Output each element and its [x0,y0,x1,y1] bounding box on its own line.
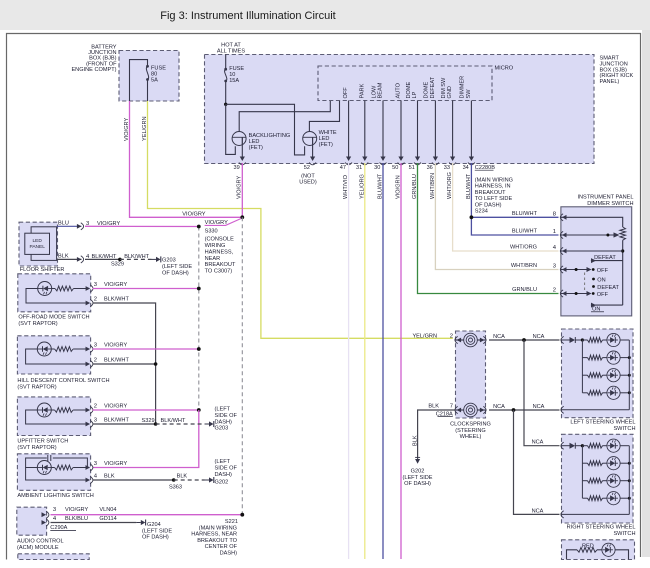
svg-text:BREAKOUT: BREAKOUT [475,190,506,196]
svg-text:50: 50 [392,165,398,171]
smart junction box (SJB) [205,43,634,164]
micro pin AUTO [396,82,404,161]
svg-text:OF DASH): OF DASH) [475,202,502,208]
audio control (ACM) module [17,507,64,551]
wire VIO/GRY splice down to ambient [93,410,199,468]
svg-text:OFF: OFF [343,87,349,99]
hill descent control switch [17,336,129,391]
svg-text:39: 39 [233,165,239,171]
micro pin DIMMER SW [460,76,474,161]
label clockspring pin 2 [412,333,453,339]
svg-text:(NOT: (NOT [301,173,315,179]
svg-text:HARNESS, IN: HARNESS, IN [475,184,511,190]
svg-text:(STEERING: (STEERING [455,428,485,434]
svg-text:DASH): DASH) [215,472,233,478]
svg-text:HOT AT: HOT AT [221,43,241,49]
wire VIO/GRY hill descent to splice [93,347,201,351]
svg-text:(LEFT: (LEFT [215,407,231,413]
micro pin PARK [359,83,367,161]
connector C2280B pin 31 [356,163,368,171]
wire WHT/BRN pin36 to dimmer pin3 [435,163,558,270]
svg-text:WHEEL): WHEEL) [460,434,482,440]
svg-text:30: 30 [374,165,380,171]
wire YEL/GRN from BJB fuse to clockspring [148,101,453,338]
svg-text:NCA: NCA [533,404,545,410]
svg-text:S330: S330 [205,228,218,234]
svg-text:LED: LED [33,238,43,244]
svg-text:DIMMER: DIMMER [460,76,466,99]
svg-text:OF DASH): OF DASH) [404,481,431,487]
label clockspring pin 7 [428,403,453,409]
dimmer pin 8 BLU/WHT [512,211,567,221]
node S234 splice [470,215,474,219]
micro pin OFF [343,87,351,161]
wire BJB internal feed [130,60,148,101]
svg-text:GD114: GD114 [99,516,116,522]
svg-text:FLOOR SHIFTER: FLOOR SHIFTER [20,267,65,273]
svg-text:S234: S234 [475,209,488,215]
floor shifter [19,222,64,273]
svg-text:BLK/WHT: BLK/WHT [104,418,129,424]
svg-text:DOME: DOME [424,81,430,98]
svg-text:2: 2 [94,297,97,303]
ground G204 [136,520,172,541]
svg-text:VIO/GRY: VIO/GRY [104,343,127,349]
label BLU/WHT vertical [466,173,472,199]
svg-text:VIO/GRY: VIO/GRY [104,461,127,467]
pin 39 drain backlighting [233,137,245,171]
svg-text:GRN/BLU: GRN/BLU [512,287,537,293]
dimmer pin 2 GRN/BLU [512,287,566,297]
transistor backlighting LED FET [232,132,290,152]
svg-text:HILL DESCENT CONTROL SWITCH: HILL DESCENT CONTROL SWITCH [17,378,109,384]
audio pin 3 VIO/GRY VLN04 [53,507,117,513]
wire BLK/WHT hill descent join [93,362,158,366]
svg-text:SIDE OF: SIDE OF [215,466,238,472]
connector C2280B pin 33 [444,163,456,171]
svg-text:DOME: DOME [406,81,412,98]
svg-text:BREAKOUT: BREAKOUT [205,262,236,268]
svg-text:33: 33 [444,165,450,171]
connector C2280B pin 34 [463,163,475,171]
svg-text:2: 2 [553,288,556,294]
node NCA junction lower [512,408,516,412]
svg-text:RED: RED [582,543,594,549]
svg-text:Fig 3: Instrument Illumination: Fig 3: Instrument Illumination Circuit [160,10,335,22]
svg-text:15A: 15A [229,78,239,84]
svg-text:BLK: BLK [412,435,418,446]
right gray margin [642,30,650,557]
wire VIO/GRY off-road to splice [93,287,201,291]
svg-text:PANEL: PANEL [30,244,46,250]
node S329 [111,258,124,268]
svg-text:(LEFT SIDE: (LEFT SIDE [402,475,432,481]
svg-text:BLK: BLK [58,253,69,259]
clockspring (steering wheel) [450,331,491,440]
svg-text:7: 7 [450,403,453,409]
wire gate backlighting FET to MICRO [239,101,330,132]
svg-text:52: 52 [304,165,310,171]
svg-text:VIO/GRY: VIO/GRY [65,507,88,513]
svg-text:AUTO: AUTO [396,82,402,98]
wire NCA clockspring upper to left switch [489,334,560,340]
ground G203 floor shifter [152,256,193,276]
svg-text:(MAIN WIRING: (MAIN WIRING [475,178,513,184]
svg-text:PANEL): PANEL) [600,79,620,85]
svg-text:(LEFT: (LEFT [215,459,231,465]
svg-text:WHT/ORG: WHT/ORG [510,245,537,251]
node S221 splice [240,513,244,517]
svg-text:2: 2 [94,358,97,364]
svg-text:NCA: NCA [493,334,505,340]
instrument panel dimmer switch [561,195,634,316]
right steering wheel switch [561,434,636,537]
svg-text:(LEFT SIDE: (LEFT SIDE [162,264,192,270]
svg-text:S329: S329 [111,262,124,268]
wire BLK dashed to G202 [174,479,205,481]
svg-text:OFF: OFF [597,292,609,298]
dimmer pin3 wiper OFF [561,267,609,274]
svg-text:AUDIO CONTROL: AUDIO CONTROL [17,539,64,545]
svg-text:47: 47 [340,165,346,171]
connector C2280B pin 51 [409,163,421,171]
fuse 80 5A [146,65,166,84]
svg-text:DASH): DASH) [220,550,238,556]
svg-text:SWITCH: SWITCH [613,531,635,537]
micro pin DOME LP [406,81,420,161]
ground G202 steering [402,457,432,487]
dimmer pin2 wiper OFF [561,291,609,298]
svg-text:TO C3007): TO C3007) [205,269,233,275]
wire BLK/WHT upfitter to S329 [93,418,156,424]
svg-text:YEL/GRN: YEL/GRN [412,333,437,339]
micro pin LOW BEAM [371,82,385,161]
header title bar [0,0,650,30]
label VIO/GRY on feed wire [182,212,205,218]
svg-text:INSTRUMENT PANEL: INSTRUMENT PANEL [577,195,633,201]
wire VIO/GRY from BJB [130,101,242,217]
wire BLK clockspring to G202 [412,410,455,459]
dimmer pin 1 BLU/WHT [512,229,567,239]
dimmer wiper linkage dashed [584,273,586,292]
svg-text:VIO/GRY: VIO/GRY [182,212,205,218]
wire BLK/WHT to S329 [85,258,120,260]
ambient lighting switch [17,454,127,499]
svg-text:OF DASH): OF DASH) [162,271,189,277]
wire gate white FET to MICRO [309,101,339,132]
svg-text:(FET): (FET) [249,145,263,151]
svg-text:(MAIN WIRING: (MAIN WIRING [199,526,237,532]
wire BLU/WHT pin34 to dimmer [471,163,558,235]
svg-text:(ACM) MODULE: (ACM) MODULE [17,545,59,551]
svg-text:VIO/GRY: VIO/GRY [124,118,130,141]
svg-text:PARK: PARK [359,83,365,98]
wire BLK/WHT off-road down [93,303,156,424]
svg-text:51: 51 [409,165,415,171]
svg-text:VIO/GRY: VIO/GRY [104,404,127,410]
svg-text:1: 1 [553,229,556,235]
svg-text:G204: G204 [147,522,161,528]
svg-text:31: 31 [356,165,362,171]
svg-text:BLU/WHT: BLU/WHT [512,211,538,217]
svg-text:36: 36 [427,165,433,171]
connector C2280B pin 47 [340,163,352,171]
node fuse output [224,81,227,106]
svg-text:BEAM: BEAM [378,82,384,98]
ground G203 upfitter [205,407,238,432]
svg-text:DEFEAT: DEFEAT [430,76,436,98]
svg-text:MICRO: MICRO [495,66,514,72]
wire VIO/GRY audio to S221 [51,514,243,516]
floor shifter pin 3 BLU wire [57,220,121,230]
node S330 splice [240,215,244,219]
svg-text:BLU: BLU [58,220,69,226]
left steering wheel switch [561,329,636,432]
svg-text:S221: S221 [225,519,238,525]
connector C2280B pin 50 [392,163,404,171]
svg-text:BLK/BLU: BLK/BLU [65,516,88,522]
wire NCA clockspring lower to left switch [489,404,560,410]
audio pin 4 BLK/BLU GD114 [50,516,116,531]
label VIO/GRY vertical under BJB [124,118,130,141]
label WHT/ORG vertical [447,172,453,199]
wire GRN/BLU pin51 to dimmer pin2 [418,163,559,294]
svg-text:2: 2 [450,333,453,339]
svg-text:OFF-ROAD MODE SWITCH: OFF-ROAD MODE SWITCH [18,315,89,321]
label GRN/BLU vertical [412,174,418,199]
node NCA junction upper [522,338,526,342]
svg-text:(SVT RAPTOR): (SVT RAPTOR) [17,445,56,451]
wire splice bus dashed S330 right [241,217,243,514]
svg-text:G202: G202 [215,479,229,485]
svg-text:(LEFT SIDE: (LEFT SIDE [142,528,172,534]
svg-text:BLK: BLK [104,474,115,480]
svg-text:5A: 5A [151,78,158,84]
svg-text:34: 34 [463,165,469,171]
upfitter switch [17,397,129,451]
label VIO/GRY vertical [237,176,243,199]
fuse 10 15A [224,55,244,85]
connector label C2280B [475,165,495,171]
micro pin DOME DEFEAT [424,76,438,161]
svg-text:BLK/WHT: BLK/WHT [104,297,129,303]
wire pin39 VIO/GRY down to S330 [241,163,243,217]
node S363 [172,478,176,482]
transistor white LED FET [303,130,337,148]
svg-text:LOW: LOW [371,85,377,98]
svg-text:HARNESS, NEAR: HARNESS, NEAR [191,532,237,538]
svg-text:BLK: BLK [177,474,188,480]
svg-text:DIM SW: DIM SW [441,77,447,99]
svg-text:VLN04: VLN04 [99,507,116,513]
svg-text:BLU/WHT: BLU/WHT [512,229,538,235]
wire BLK/WHT dashed to G203 second [156,418,205,424]
pin 52 drain white LED [299,137,317,185]
svg-text:TO LEFT SIDE: TO LEFT SIDE [475,196,513,202]
svg-text:S329: S329 [142,418,155,424]
label YEL/GRN vertical under BJB [142,116,148,141]
svg-text:SWITCH: SWITCH [613,426,635,432]
svg-text:ALL TIMES: ALL TIMES [217,49,246,55]
connector C218A [436,411,453,417]
svg-text:BREAKOUT TO: BREAKOUT TO [197,538,237,544]
svg-text:SIDE OF: SIDE OF [215,413,238,419]
svg-text:LEFT STEERING WHEEL: LEFT STEERING WHEEL [570,420,635,426]
coil L1 clockspring upper [455,333,486,347]
label S330 with leader [205,219,241,275]
svg-text:ENGINE COMPT): ENGINE COMPT) [71,67,116,73]
svg-text:GND: GND [447,86,453,98]
label S234 harness note [475,178,513,215]
wire VIO/GRY floor shifter to splice [85,225,201,229]
dimmer contact DEFEAT lower [592,285,619,291]
svg-text:NCA: NCA [532,508,544,514]
svg-text:OFF: OFF [597,268,609,274]
svg-text:NCA: NCA [533,334,545,340]
connector C2280B pin 30 [374,163,386,171]
svg-text:OF DASH): OF DASH) [142,535,169,541]
svg-text:BLK: BLK [428,403,439,409]
svg-text:NCA: NCA [493,404,505,410]
svg-text:BLK/WHT: BLK/WHT [124,254,149,260]
svg-text:AMBIENT LIGHTING SWITCH: AMBIENT LIGHTING SWITCH [17,493,93,499]
wire splice bus dashed S330 left [198,227,200,411]
svg-text:BLK/WHT: BLK/WHT [161,418,186,424]
svg-text:(SVT RAPTOR): (SVT RAPTOR) [18,321,57,327]
dimmer contact ON [592,277,606,283]
dimmer pin 4 WHT/ORG [510,245,567,255]
floor shifter pin 4 BLK wire [57,253,117,263]
svg-text:(CONSOLE: (CONSOLE [205,237,234,243]
svg-text:S363: S363 [169,485,182,491]
svg-text:G202: G202 [411,469,425,475]
label S221 harness note [191,519,238,556]
node S329 second [154,422,158,426]
svg-text:WHT/BRN: WHT/BRN [511,263,537,269]
svg-text:YEL/GRN: YEL/GRN [142,116,148,141]
dimmer DEFEAT contact upper [591,255,623,263]
micro pin DIM SW GND [441,77,455,161]
wire NCA to right switch top [524,340,560,446]
wire supply to FETs [226,104,305,155]
svg-text:(SVT RAPTOR): (SVT RAPTOR) [17,384,56,390]
label WHT/VIO vertical [343,174,349,199]
wire BLK/WHT dashed to G203 [120,254,152,260]
svg-text:NCA: NCA [532,440,544,446]
dimmer pin 3 WHT/BRN [511,263,567,273]
battery junction box (BJB) [71,45,179,102]
dimmer internal rheostat circuit [561,217,626,305]
svg-text:CLOCKSPRING: CLOCKSPRING [450,422,491,428]
svg-text:DASH): DASH) [215,419,233,425]
svg-text:DIMMER SWITCH: DIMMER SWITCH [587,201,633,207]
off-road mode switch [18,274,130,327]
label YEL/ORG vertical [359,174,365,199]
svg-text:RIGHT STEERING WHEEL: RIGHT STEERING WHEEL [567,525,636,531]
bottom-left box (cut off) [18,554,89,560]
connector C2280B pin 36 [427,163,439,171]
coil L2 clockspring lower [455,403,486,417]
svg-text:SW: SW [466,89,472,99]
label VIO/GRN vertical [396,175,402,199]
wire BLU/WHT pin30 [382,163,384,559]
wire YEL/ORG pin31 [364,163,366,559]
wire BLK/BLU audio to G204 [51,522,137,524]
micro controller box [318,66,514,101]
wire WHT/VIO pin47 [348,163,350,559]
dimmer ON contact bottom [591,303,623,313]
svg-text:2: 2 [94,404,97,410]
svg-text:UPFITTER SWITCH: UPFITTER SWITCH [17,438,68,444]
svg-text:WIRING: WIRING [205,243,226,249]
svg-text:(FET): (FET) [319,142,333,148]
svg-text:USED): USED) [299,180,317,186]
ground G202 ambient [205,459,238,485]
label BLU/WHT vertical [378,173,384,199]
svg-text:LP: LP [412,91,418,98]
bottom switch box (cut off) [562,540,635,560]
svg-text:G203: G203 [162,258,176,264]
svg-text:DEFEAT: DEFEAT [597,285,619,291]
svg-text:HARNESS,: HARNESS, [205,249,234,255]
wire BLK ambient to S363 [93,474,188,491]
svg-text:BLK/WHT: BLK/WHT [104,358,129,364]
svg-text:CENTER OF: CENTER OF [205,544,238,550]
svg-text:ON: ON [597,277,605,283]
svg-text:NEAR: NEAR [205,256,221,262]
label WHT/BRN vertical [430,173,436,199]
wire NCA to right switch bottom [514,410,560,514]
svg-text:VIO/GRY: VIO/GRY [104,282,127,288]
wire VIO/GRY upfitter to splice [93,408,201,412]
wire VIO/GRN pin50 [400,163,402,559]
svg-text:G203: G203 [215,426,229,432]
wire WHT/ORG pin33 to dimmer pin4 [453,163,559,251]
